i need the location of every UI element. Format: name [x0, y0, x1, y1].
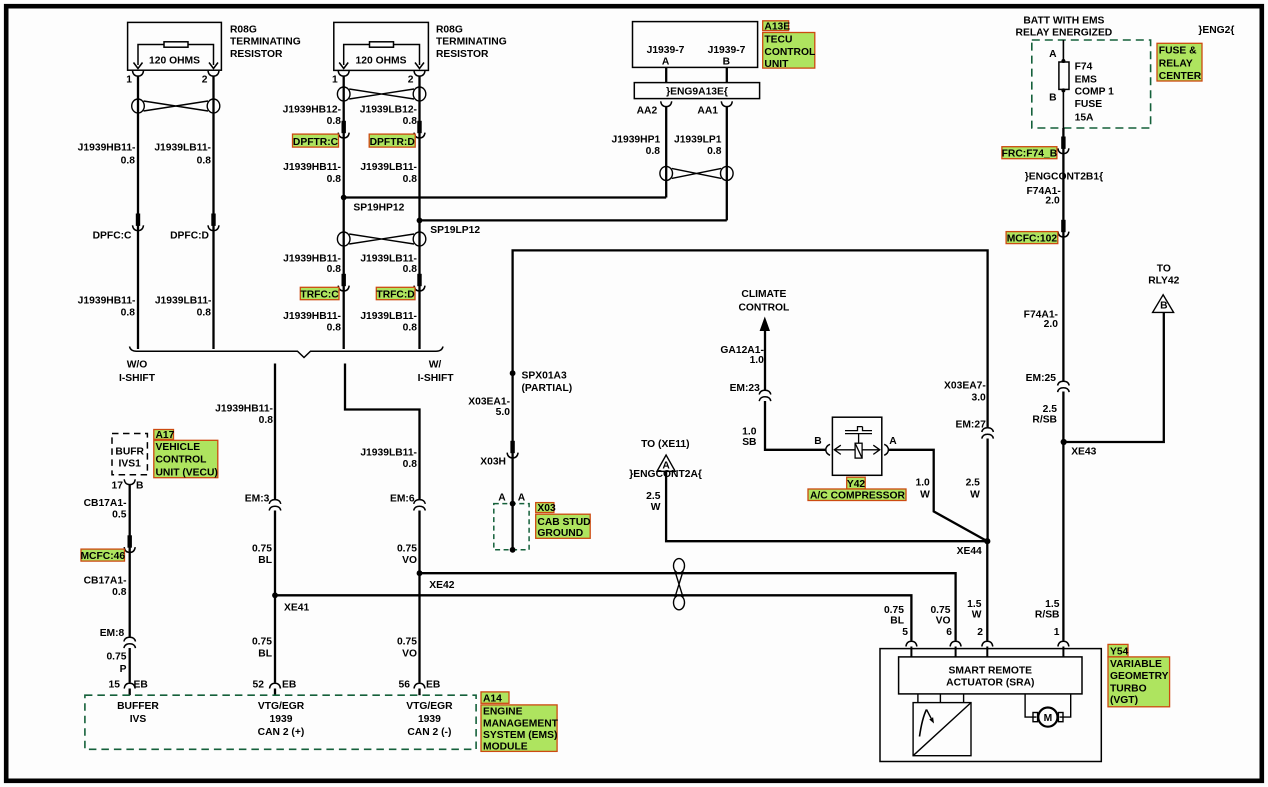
- svg-text:5.0: 5.0: [496, 407, 511, 418]
- wire XE44 down to SRA pin 2: [986, 541, 988, 640]
- climate control arrow: [738, 289, 789, 331]
- inline connector EM:25: [1026, 373, 1070, 392]
- svg-text:MCFC:102: MCFC:102: [1007, 234, 1058, 245]
- wire label X03EA7-3.0: [944, 381, 986, 404]
- svg-text:1.0: 1.0: [915, 478, 930, 489]
- node SP19LP12: [417, 218, 481, 237]
- svg-text:RELAY ENERGIZED: RELAY ENERGIZED: [1016, 27, 1113, 38]
- svg-text:SP19LP12: SP19LP12: [430, 225, 480, 236]
- svg-text:0.8: 0.8: [121, 308, 136, 319]
- wire below brace left (J1939HB11 to EMS pin 52): [274, 364, 276, 683]
- SRA pin 6: [946, 627, 961, 657]
- pin 1 of R2: [332, 71, 349, 86]
- wire label X03EA1-5.0: [468, 396, 510, 418]
- svg-text:RESISTOR: RESISTOR: [230, 49, 283, 60]
- connector DPFTR:D: [369, 121, 425, 148]
- svg-text:X03: X03: [537, 503, 556, 514]
- node XE44: [957, 538, 991, 557]
- svg-text:RELAY: RELAY: [1159, 58, 1193, 69]
- svg-text:TURBO: TURBO: [1110, 683, 1147, 694]
- wire label 0.75 BL (above XE41): [252, 543, 272, 566]
- pin 1 of R1: [126, 71, 143, 86]
- wire J1939HP1 (AA2 down to SP19HP12 line): [665, 107, 667, 198]
- svg-text:J1939HB11-: J1939HB11-: [215, 403, 273, 414]
- svg-text:0.8: 0.8: [327, 323, 342, 334]
- svg-text:0.8: 0.8: [121, 156, 136, 167]
- node SPX01A3: [510, 370, 573, 394]
- vehicle control unit BUFR IVS1 dashed box: [112, 434, 147, 475]
- svg-text:2.0: 2.0: [1045, 195, 1060, 206]
- svg-text:1: 1: [332, 75, 338, 86]
- svg-text:R/SB: R/SB: [1035, 610, 1060, 621]
- wire label 0.75 BL (below XE41): [252, 637, 272, 660]
- svg-text:DPFC:C: DPFC:C: [93, 231, 132, 242]
- svg-text:0.8: 0.8: [327, 174, 342, 185]
- svg-text:0.75: 0.75: [252, 637, 272, 648]
- twisted pair symbol on XE41/XE42 bus: [674, 559, 685, 610]
- svg-text:0.8: 0.8: [403, 174, 418, 185]
- svg-text:2.0: 2.0: [1044, 319, 1059, 330]
- label FUSE & RELAY CENTER: [1157, 43, 1202, 82]
- svg-text:SYSTEM (EMS): SYSTEM (EMS): [483, 730, 557, 741]
- svg-text:SPX01A3: SPX01A3: [522, 371, 567, 382]
- label A17: [154, 430, 175, 442]
- svg-text:ENGINE: ENGINE: [483, 707, 523, 718]
- smart remote actuator SRA outer box: [880, 649, 1101, 762]
- svg-text:TO (XE11): TO (XE11): [641, 439, 689, 450]
- svg-text:}ENGCONT2B1{: }ENGCONT2B1{: [1025, 172, 1103, 183]
- wire SP19LP12 horizontal: [420, 219, 727, 221]
- svg-text:0.8: 0.8: [403, 264, 418, 275]
- wire label J1939LP1 0.8: [674, 135, 722, 158]
- svg-text:GROUND: GROUND: [537, 528, 583, 539]
- wire below brace right (J1939LB11, jog to EMS pin 56): [345, 364, 420, 683]
- svg-text:J1939LB11-: J1939LB11-: [360, 447, 417, 458]
- svg-text:XE42: XE42: [429, 580, 454, 591]
- brace W/O I-SHIFT / W/ I-SHIFT: [119, 347, 454, 385]
- label A13E: [763, 21, 791, 33]
- svg-text:0.8: 0.8: [197, 308, 212, 319]
- svg-text:(PARTIAL): (PARTIAL): [522, 383, 573, 394]
- svg-text:15A: 15A: [1075, 113, 1094, 124]
- node SP19HP12: [341, 195, 405, 214]
- svg-text:A: A: [662, 57, 670, 68]
- svg-text:I-SHIFT: I-SHIFT: [418, 373, 455, 384]
- svg-text:CAB STUD: CAB STUD: [537, 517, 590, 528]
- svg-text:R08G: R08G: [230, 24, 257, 35]
- wire label J1939LB11-0.8 (below TRFC): [360, 311, 417, 334]
- svg-text:CB17A1-: CB17A1-: [84, 575, 127, 586]
- svg-text:TRFC:D: TRFC:D: [376, 290, 414, 301]
- svg-text:2.5: 2.5: [966, 478, 981, 489]
- svg-text:COMP 1: COMP 1: [1075, 87, 1115, 98]
- wire label 0.75 VO (SRA): [930, 605, 950, 627]
- wire label J1939HB11-0.8 (lower left): [78, 295, 136, 318]
- svg-text:B: B: [1049, 93, 1056, 104]
- wire through fuse: [1062, 40, 1064, 135]
- svg-text:J1939HB11-: J1939HB11-: [78, 143, 136, 154]
- wire label 1.5 R/SB: [1035, 599, 1060, 620]
- wire label J1939HB11-0.8 (R2 mid): [283, 162, 341, 185]
- svg-text:B: B: [1160, 300, 1167, 311]
- wire label J1939HP1 0.8: [612, 135, 661, 158]
- SRA pin 2: [977, 627, 993, 657]
- svg-text:A: A: [1049, 49, 1057, 60]
- svg-text:XE43: XE43: [1071, 447, 1096, 458]
- connector DPFTR:C: [293, 121, 350, 148]
- svg-text:VARIABLE: VARIABLE: [1110, 659, 1162, 670]
- svg-text:120 OHMS: 120 OHMS: [149, 56, 200, 67]
- svg-text:XE41: XE41: [284, 602, 309, 613]
- svg-text:2.5: 2.5: [646, 491, 661, 502]
- pin AA2: [637, 101, 672, 116]
- svg-text:W: W: [970, 490, 980, 501]
- svg-text:X03EA1-: X03EA1-: [468, 396, 510, 407]
- svg-text:AA1: AA1: [697, 106, 718, 117]
- svg-text:TO: TO: [1157, 263, 1171, 274]
- wire label J1939LB11-0.8 (R2 mid): [360, 162, 417, 185]
- svg-text:TERMINATING: TERMINATING: [436, 36, 507, 47]
- twisted pair symbol R2 lower: [337, 232, 425, 246]
- wire compressor A to XE44: [888, 450, 987, 541]
- R08G #2 name label: [436, 24, 507, 60]
- svg-text:A17: A17: [156, 430, 175, 441]
- wire label J1939HB11-0.8 (upper left): [78, 143, 136, 167]
- svg-text:RESISTOR: RESISTOR: [436, 49, 489, 60]
- inline connector EM:6: [390, 493, 425, 510]
- label Y54: [1108, 644, 1129, 657]
- svg-text:J1939HB11-: J1939HB11-: [78, 295, 136, 306]
- resistor R08G #2 (120 OHMS terminating resistor): [334, 22, 429, 70]
- svg-text:1939: 1939: [418, 714, 441, 725]
- svg-text:VO: VO: [402, 555, 417, 566]
- svg-text:X03EA7-: X03EA7-: [944, 381, 986, 392]
- svg-text:0.75: 0.75: [397, 637, 417, 648]
- wire J1939LB11 left (R1 pin2 down to brace): [212, 76, 214, 349]
- svg-text:J1939LB11-: J1939LB11-: [154, 143, 211, 154]
- svg-text:2: 2: [977, 627, 983, 638]
- wire label 0.75 P: [106, 652, 126, 675]
- wire label J1939LB11-0.8 (lower left): [155, 295, 212, 318]
- wire J1939HB11 left (R1 pin1 down to brace): [137, 76, 139, 349]
- svg-text:R08G: R08G: [436, 24, 463, 35]
- wire label J1939HB11-0.8 (below TRFC): [283, 311, 341, 334]
- svg-text:CAN 2 (-): CAN 2 (-): [407, 727, 451, 738]
- svg-text:120 OHMS: 120 OHMS: [356, 56, 407, 67]
- svg-text:6: 6: [946, 627, 952, 638]
- svg-text:W/O: W/O: [127, 360, 148, 371]
- svg-text:CLIMATE: CLIMATE: [741, 289, 786, 300]
- svg-text:0.8: 0.8: [707, 146, 722, 157]
- svg-text:0.8: 0.8: [403, 459, 418, 470]
- svg-text:1: 1: [1054, 627, 1060, 638]
- svg-text:EM:27: EM:27: [955, 420, 986, 431]
- svg-text:0.8: 0.8: [646, 146, 661, 157]
- svg-text:A: A: [518, 493, 526, 504]
- svg-text:J1939LB12-: J1939LB12-: [360, 105, 418, 116]
- svg-text:Y42: Y42: [847, 479, 866, 490]
- svg-text:IVS1: IVS1: [119, 459, 142, 470]
- wire label J1939HB11-0.8 (below brace): [215, 403, 273, 426]
- svg-text:A14: A14: [483, 693, 502, 704]
- wire label J1939LB11-0.8 (upper left): [154, 143, 211, 167]
- inline connector EM:27: [955, 420, 993, 439]
- svg-text:CENTER: CENTER: [1159, 71, 1202, 82]
- wire label 2.5 R/SB: [1032, 404, 1057, 426]
- svg-text:W: W: [920, 490, 930, 501]
- twisted pair symbol TECU: [660, 166, 733, 180]
- SRA pin 5: [902, 627, 917, 657]
- svg-text:2: 2: [408, 75, 414, 86]
- off-page arrow TO (XE11): [629, 439, 702, 480]
- svg-text:P: P: [120, 664, 127, 675]
- R08G #1 name label: [230, 24, 301, 60]
- inline connector EM:23: [730, 383, 771, 401]
- svg-text:W/: W/: [429, 360, 442, 371]
- inline connector EM:3: [245, 493, 281, 510]
- wire GA12A1 (climate control down to compressor B): [765, 330, 826, 450]
- svg-text:J1939HB12-: J1939HB12-: [283, 105, 342, 116]
- wire CB17A1 (pin 17 down to EMS pin 15): [129, 485, 131, 683]
- svg-text:CB17A1-: CB17A1-: [84, 498, 127, 509]
- svg-text:CAN 2 (+): CAN 2 (+): [258, 727, 305, 738]
- svg-text:1939: 1939: [270, 714, 293, 725]
- svg-text:DPFTR:C: DPFTR:C: [293, 137, 339, 148]
- svg-text:EB: EB: [426, 680, 440, 691]
- connector X03H: [480, 441, 518, 468]
- svg-text:J1939HP1: J1939HP1: [612, 135, 661, 146]
- wire XE41 bus to SRA pin 5: [275, 595, 911, 640]
- wire ENGCONT2A to XE44: [666, 472, 987, 541]
- pin 17 B: [112, 479, 144, 491]
- svg-text:F74: F74: [1075, 61, 1093, 72]
- svg-text:X03H: X03H: [480, 456, 506, 467]
- svg-text:J1939LP1: J1939LP1: [674, 135, 722, 146]
- twisted pair symbol R1: [132, 99, 220, 113]
- resistor R08G #1 (120 OHMS terminating resistor): [128, 22, 222, 70]
- svg-text:EB: EB: [134, 680, 148, 691]
- wire J1939HB12 (R2 pin1 down): [343, 76, 345, 349]
- svg-text:MANAGEMENT: MANAGEMENT: [483, 718, 559, 729]
- label TECU CONTROL UNIT: [763, 33, 816, 71]
- node XE42: [417, 570, 455, 591]
- svg-text:0.75: 0.75: [884, 605, 904, 616]
- svg-text:SMART REMOTE: SMART REMOTE: [949, 666, 1033, 677]
- svg-text:J1939LB11-: J1939LB11-: [360, 254, 417, 265]
- wire J1939LB12 (R2 pin2 down): [418, 76, 420, 349]
- svg-text:0.75: 0.75: [397, 543, 417, 554]
- pin 2 of R1: [202, 71, 219, 86]
- svg-text:ACTUATOR (SRA): ACTUATOR (SRA): [946, 677, 1034, 688]
- svg-text:}ENG2{: }ENG2{: [1198, 25, 1234, 36]
- svg-text:AA2: AA2: [637, 106, 658, 117]
- wire F74A1 (fuse B down to XE43): [1062, 128, 1064, 382]
- wire XE42 bus to SRA pin 6: [420, 573, 956, 640]
- svg-text:A13E: A13E: [764, 22, 790, 33]
- op TECU control unit A13E box: [633, 22, 758, 68]
- wire label J1939LB12-0.8: [360, 105, 418, 127]
- svg-text:TRFC:C: TRFC:C: [300, 290, 339, 301]
- header BATT WITH EMS RELAY ENERGIZED: [1016, 15, 1113, 38]
- svg-text:15: 15: [109, 680, 121, 691]
- connector MCFC:46: [80, 535, 135, 562]
- svg-text:M: M: [1044, 713, 1053, 724]
- svg-text:J1939LB11-: J1939LB11-: [155, 295, 212, 306]
- svg-text:FUSE &: FUSE &: [1159, 46, 1197, 57]
- svg-text:5: 5: [902, 627, 908, 638]
- svg-text:SB: SB: [742, 437, 756, 448]
- svg-text:BUFR: BUFR: [115, 446, 144, 457]
- svg-text:0.75: 0.75: [930, 605, 950, 616]
- svg-text:EM:25: EM:25: [1026, 373, 1057, 384]
- svg-text:BL: BL: [258, 555, 272, 566]
- connector FRC:F74_B: [1002, 137, 1069, 160]
- node XE41: [272, 592, 309, 613]
- fuse F74 EMS COMP 1 FUSE 15A: [1049, 49, 1114, 124]
- svg-text:0.8: 0.8: [259, 415, 274, 426]
- svg-text:BUFFER: BUFFER: [117, 701, 159, 712]
- engine management system EMS module dashed box: [85, 695, 476, 749]
- svg-text:0.8: 0.8: [197, 156, 212, 167]
- svg-text:2.5: 2.5: [1043, 404, 1058, 415]
- svg-text:(VGT): (VGT): [1110, 695, 1138, 706]
- connector TRFC:D: [376, 274, 425, 301]
- svg-text:UNIT (VECU): UNIT (VECU): [156, 467, 218, 478]
- wire label J1939LB11-0.8 (above TRFC): [360, 254, 417, 276]
- node XE43: [1061, 439, 1097, 458]
- svg-text:UNIT: UNIT: [764, 59, 789, 70]
- svg-text:TERMINATING: TERMINATING: [230, 36, 301, 47]
- svg-text:BL: BL: [890, 616, 904, 627]
- wire label F74A1-2.0 (lower): [1024, 310, 1059, 330]
- svg-text:0.8: 0.8: [403, 116, 418, 127]
- wire label J1939HB11-0.8 (above TRFC): [283, 254, 341, 276]
- svg-text:J1939HB11-: J1939HB11-: [283, 311, 341, 322]
- svg-text:DPFC:D: DPFC:D: [170, 231, 209, 242]
- connector box }ENG9A13E{: [634, 83, 759, 99]
- svg-text:52: 52: [253, 680, 265, 691]
- wire label 1.5 W: [967, 599, 982, 620]
- svg-text:Y54: Y54: [1110, 647, 1129, 658]
- svg-text:BATT WITH EMS: BATT WITH EMS: [1023, 15, 1104, 26]
- svg-text:VTG/EGR: VTG/EGR: [258, 701, 305, 712]
- svg-text:VO: VO: [936, 616, 951, 627]
- svg-text:2: 2: [202, 75, 208, 86]
- svg-text:}ENG9A13E{: }ENG9A13E{: [666, 86, 728, 97]
- svg-text:XE44: XE44: [957, 546, 982, 557]
- svg-text:FUSE: FUSE: [1075, 99, 1103, 110]
- pin AA1: [697, 101, 732, 116]
- svg-text:J1939HB11-: J1939HB11-: [283, 162, 341, 173]
- svg-text:56: 56: [399, 680, 411, 691]
- wire RLY42 to XE43: [1064, 312, 1164, 442]
- wire EM:25 to XE43 and down to SRA pin 1: [1062, 392, 1064, 641]
- label A/C COMPRESSOR: [808, 489, 906, 502]
- svg-text:VTG/EGR: VTG/EGR: [406, 701, 453, 712]
- svg-text:1.0: 1.0: [742, 427, 757, 438]
- fuse and relay center dashed box: [1032, 40, 1151, 128]
- svg-text:0.75: 0.75: [106, 652, 126, 663]
- label CAB STUD GROUND: [536, 514, 591, 539]
- svg-text:W: W: [651, 502, 661, 513]
- wire label CB17A1-0.5: [84, 498, 127, 521]
- twisted pair symbol R2 upper: [337, 87, 425, 101]
- off-page arrow TO RLY42: [1148, 263, 1179, 312]
- ground X03 cab stud ground: [494, 493, 529, 553]
- pin 52 EB: [253, 680, 297, 696]
- svg-text:0.5: 0.5: [112, 510, 127, 521]
- label VEHICLE CONTROL UNIT (VECU): [154, 440, 218, 478]
- svg-text:CONTROL: CONTROL: [156, 455, 207, 466]
- connector MCFC:102: [1006, 220, 1069, 245]
- connector TRFC:C: [300, 274, 349, 301]
- svg-text:1.0: 1.0: [750, 355, 765, 366]
- wire label 1.0 W: [915, 478, 930, 501]
- wire label CB17A1-0.8: [84, 575, 127, 598]
- svg-text:0.75: 0.75: [252, 543, 272, 554]
- svg-text:J1939LB11-: J1939LB11-: [360, 311, 417, 322]
- svg-text:A: A: [889, 436, 897, 447]
- svg-text:A: A: [498, 493, 506, 504]
- svg-text:SP19HP12: SP19HP12: [353, 202, 404, 213]
- label X03: [536, 503, 556, 515]
- wire label GA12A1-1.0: [720, 345, 764, 366]
- svg-text:W: W: [972, 610, 982, 621]
- svg-text:0.8: 0.8: [327, 264, 342, 275]
- svg-text:0.8: 0.8: [112, 587, 127, 598]
- svg-text:CONTROL: CONTROL: [738, 303, 789, 314]
- svg-text:VO: VO: [402, 649, 417, 660]
- label VARIABLE GEOMETRY TURBO (VGT): [1108, 657, 1170, 707]
- wire label 2.5 W (left): [646, 491, 661, 513]
- wire TECU pin A stub: [665, 67, 667, 82]
- SRA pin 1: [1054, 627, 1069, 657]
- pin 56 EB: [399, 680, 441, 696]
- svg-text:J1939-7: J1939-7: [708, 45, 746, 56]
- wire J1939LP1 (AA1 down to SP19LP12 line): [726, 107, 728, 221]
- svg-text:1: 1: [126, 75, 132, 86]
- svg-text:J1939LB11-: J1939LB11-: [360, 162, 417, 173]
- svg-text:EB: EB: [282, 680, 296, 691]
- svg-text:BL: BL: [258, 649, 272, 660]
- svg-text:EM:8: EM:8: [100, 628, 125, 639]
- svg-text:IVS: IVS: [130, 714, 147, 725]
- svg-text:EM:23: EM:23: [730, 383, 761, 394]
- svg-text:FRC:F74_B: FRC:F74_B: [1002, 149, 1058, 160]
- svg-text:EM:6: EM:6: [390, 493, 415, 504]
- wire label 0.75 VO (below XE42): [397, 637, 417, 660]
- svg-text:CONTROL: CONTROL: [764, 47, 815, 58]
- svg-text:R/SB: R/SB: [1032, 415, 1057, 426]
- svg-text:J1939HB11-: J1939HB11-: [283, 254, 341, 265]
- svg-text:0.8: 0.8: [327, 116, 342, 127]
- SRA inner label box: [899, 657, 1082, 694]
- svg-text:RLY42: RLY42: [1148, 276, 1179, 287]
- svg-text:B: B: [723, 57, 730, 68]
- connector DPFC:C: [93, 214, 144, 242]
- svg-text:TECU: TECU: [764, 35, 792, 46]
- svg-text:0.8: 0.8: [403, 323, 418, 334]
- pin 15 EB: [109, 680, 148, 696]
- wire label J1939LB11-0.8 (below brace): [360, 447, 417, 470]
- svg-text:DPFTR:D: DPFTR:D: [370, 137, 415, 148]
- svg-text:3.0: 3.0: [971, 393, 986, 404]
- label A14: [481, 692, 509, 704]
- wire label F74A1-2.0 (upper): [1026, 186, 1061, 206]
- SRA motor M: [1025, 694, 1071, 727]
- svg-text:GEOMETRY: GEOMETRY: [1110, 671, 1169, 682]
- wire TECU pin B stub: [726, 67, 728, 82]
